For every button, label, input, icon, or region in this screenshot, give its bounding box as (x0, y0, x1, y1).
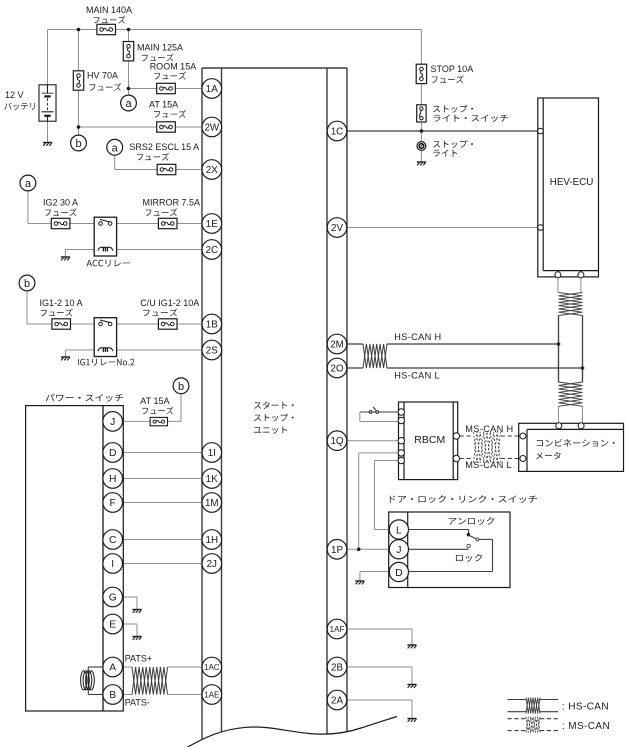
power switch pin G (103, 587, 123, 607)
fuse IG2 30A (51, 218, 70, 228)
label HV 70A (87, 71, 121, 91)
torn edge mask (186, 717, 398, 747)
wire 1P row to door lock J (347, 548, 390, 550)
twisted pair HS-CAN vertical lower (559, 382, 583, 406)
svg-text:12 V: 12 V (5, 90, 24, 100)
wire HS-CAN H (347, 343, 559, 345)
label MS-CAN L (465, 460, 512, 470)
label lock (456, 554, 482, 562)
connector pin 1H (202, 530, 222, 550)
connector pin 1M (202, 493, 222, 513)
power switch pin D (103, 443, 123, 463)
label HS-CAN L (394, 371, 440, 381)
svg-text:C/U IG1-2 10A: C/U IG1-2 10A (140, 298, 199, 308)
RBCM pin MS-CAN L (453, 455, 459, 461)
connector pin 1AE (202, 685, 222, 705)
connector pin 2S (202, 340, 222, 360)
svg-text:1C: 1C (331, 127, 344, 138)
twisted pair MS-CAN (474, 432, 501, 463)
wire G to ground (121, 597, 137, 610)
svg-text:PATS+: PATS+ (125, 654, 152, 664)
wire door lock D to ground (360, 572, 390, 582)
svg-text:J: J (110, 417, 115, 428)
node a SRS2 (107, 139, 123, 155)
power switch pin E (103, 614, 123, 634)
wire PATS braid to 1AC (168, 666, 203, 668)
power switch pin F (103, 493, 123, 513)
wire ACC relay coil row 2C with ground stub (65, 250, 202, 258)
RBCM left pin 1 (398, 409, 404, 415)
wire B to PATS braid (121, 694, 132, 696)
meter pin CAN H (556, 423, 562, 429)
label STOP 10A (431, 64, 474, 83)
label start stop unit (254, 401, 294, 433)
RBCM box (399, 402, 458, 480)
ground battery (43, 143, 52, 146)
door lock switch internals (408, 530, 492, 572)
svg-text:1AF: 1AF (330, 625, 345, 634)
legend MS-CAN text (562, 721, 610, 732)
svg-text:SRS2 ESCL 15 A: SRS2 ESCL 15 A (129, 142, 199, 152)
svg-text:J: J (396, 544, 401, 556)
label MAIN 125A (137, 43, 183, 62)
immobilizer antenna coil (81, 671, 95, 690)
svg-text:1K: 1K (206, 474, 218, 485)
svg-text:2W: 2W (204, 123, 219, 134)
legend HS-CAN sample (508, 698, 559, 714)
HEV-ECU box (538, 98, 599, 277)
connector pin 2A (327, 690, 347, 710)
twisted pair 2M 2O (363, 344, 387, 368)
svg-text:b: b (178, 381, 184, 393)
svg-text:MIRROR 7.5A: MIRROR 7.5A (143, 198, 201, 208)
label 12V battery (4, 90, 35, 110)
svg-text:E: E (109, 620, 116, 631)
wire CAN braid to meter pins stubs (559, 406, 583, 422)
svg-text:MS-CAN L: MS-CAN L (465, 460, 512, 470)
svg-text:1Q: 1Q (330, 436, 343, 447)
svg-text:b: b (75, 138, 81, 150)
wire C to 1H (121, 539, 203, 541)
wire STOP fuse drop (420, 30, 422, 132)
svg-text:b: b (24, 278, 30, 290)
RBCM pin MS-CAN H (453, 433, 459, 439)
svg-text:2V: 2V (331, 223, 343, 234)
svg-text:2M: 2M (330, 340, 344, 351)
battery 12V (39, 85, 56, 121)
label door lock link switch (390, 495, 537, 503)
wire stop light drop and ground (420, 131, 422, 162)
svg-text:2S: 2S (206, 346, 218, 357)
ground door lock D (355, 581, 364, 584)
svg-text:2X: 2X (206, 165, 218, 176)
svg-text:AT 15A: AT 15A (140, 396, 169, 406)
ground 2B (407, 685, 416, 688)
wire node b to IG1-2 fuse row 1B (27, 290, 203, 324)
label ACC relay (87, 260, 130, 267)
ground ACC relay (61, 257, 70, 260)
wire J row to AT15A fuse and node b riser (121, 393, 181, 422)
svg-text:MAIN 125A: MAIN 125A (137, 43, 183, 53)
label HEV-ECU (550, 177, 594, 188)
junction 2W row node b (77, 125, 81, 129)
meter pin CAN L (578, 423, 584, 429)
torn edge wavy line (186, 717, 397, 747)
svg-text:HV 70A: HV 70A (87, 71, 118, 81)
connector pin 2W (202, 117, 222, 137)
node b J row (173, 378, 189, 394)
label MS-CAN H (465, 424, 513, 434)
node a IG2 (20, 175, 36, 191)
wire 2W row (79, 126, 203, 128)
label AT 15A 2W row (149, 100, 186, 118)
svg-text:C: C (109, 535, 117, 546)
svg-text:1I: 1I (208, 448, 216, 459)
fuse MAIN 140A (97, 24, 116, 34)
svg-text:IG1-2 10 A: IG1-2 10 A (40, 298, 83, 308)
wire RBCM test switch loop (360, 412, 399, 422)
meter pin MS-CAN L (520, 456, 526, 462)
ground stop light (417, 162, 426, 165)
label stop light switch (433, 105, 508, 122)
connector pin 2O (327, 358, 347, 378)
wire H to 1K (121, 478, 203, 480)
svg-text:1B: 1B (206, 320, 218, 331)
junction HS-CAN L (581, 366, 585, 370)
svg-text:F: F (110, 498, 116, 509)
RBCM left pin 4 (398, 450, 404, 456)
svg-text:1M: 1M (205, 498, 219, 509)
junction bus MAIN125A (127, 28, 131, 32)
label HS-CAN H (394, 332, 441, 342)
svg-text:2A: 2A (331, 696, 343, 707)
door lock link switch box (389, 512, 510, 588)
svg-text:1P: 1P (331, 545, 343, 556)
svg-text:D: D (109, 448, 116, 459)
junction 1A row node a (127, 87, 131, 91)
twisted pair PATS (132, 667, 168, 695)
svg-text:STOP 10A: STOP 10A (431, 64, 474, 74)
connector pin 2B (327, 657, 347, 677)
power switch box (26, 406, 124, 711)
fuse STOP 10A (416, 64, 426, 83)
label power switch (46, 394, 123, 402)
connector pin 1Q (327, 431, 347, 451)
stop light switch (417, 105, 426, 122)
twisted pair HS-CAN vertical upper (559, 293, 583, 316)
svg-text:a: a (25, 178, 32, 190)
HEV-ECU pin 2V (538, 225, 544, 231)
wire MS-CAN H dashed (460, 435, 520, 437)
svg-text:MS-CAN H: MS-CAN H (465, 424, 513, 434)
power switch pin H (103, 469, 123, 489)
svg-text:MAIN 140A: MAIN 140A (86, 5, 132, 15)
label IG2 30A (43, 198, 78, 217)
svg-text:1H: 1H (206, 535, 219, 546)
wire 2A to ground (347, 700, 412, 719)
label IG1 relay No.2 (78, 359, 134, 366)
wire F to 1M (121, 502, 203, 504)
wire HV70A drop from bus to node b junction (78, 30, 80, 137)
svg-text:1E: 1E (206, 219, 218, 230)
ground 2A (407, 719, 416, 722)
svg-text:1AE: 1AE (204, 690, 219, 699)
stop light bulb (417, 142, 426, 151)
wire A to antenna coil (88, 667, 103, 695)
wire RBCM to door lock L (375, 461, 399, 530)
fuse IG1-2 10A (52, 319, 71, 329)
connector pin 1E (202, 214, 222, 234)
connector pin 1AF (327, 619, 347, 639)
relay IG1 No.2 (94, 318, 116, 357)
HEV-ECU pin CAN H (555, 272, 561, 278)
wire CAN channel verticals (559, 316, 583, 383)
connector pin 2X (202, 160, 222, 180)
power switch pin J (103, 412, 123, 432)
connector pin 1K (202, 469, 222, 489)
svg-text:AT 15A: AT 15A (149, 100, 178, 110)
svg-text:IG2 30 A: IG2 30 A (43, 198, 78, 208)
svg-text:2C: 2C (206, 245, 219, 256)
connector pin 2J (202, 554, 222, 574)
wire 2B to ground (347, 667, 412, 685)
label SRS2 ESCL 15A (129, 142, 199, 161)
HEV-ECU pin CAN L (578, 272, 584, 278)
svg-text:HS-CAN H: HS-CAN H (394, 332, 441, 342)
RBCM left pin 3 (398, 438, 404, 444)
wire 1C row to HEV-ECU (347, 130, 538, 132)
svg-text:G: G (109, 593, 117, 604)
wire MS-CAN L dashed (460, 458, 520, 460)
ground IG1 relay (61, 357, 70, 360)
RBCM left pin 5 (398, 457, 404, 463)
node b below 2W junction (71, 135, 87, 151)
door lock pin D (389, 562, 408, 581)
label ROOM 15A (150, 62, 197, 80)
svg-text:B: B (109, 690, 116, 701)
wire PATS braid to 1AE (168, 694, 203, 696)
connector pin 2C (202, 240, 222, 260)
label MIRROR 7.5A (143, 198, 201, 217)
fuse AT 15A 2W row (157, 122, 176, 132)
RBCM test switch (369, 407, 378, 414)
connector pin 1P (327, 540, 347, 560)
connector pin 1C (327, 121, 347, 141)
wire E to ground (121, 624, 137, 637)
connector pin 2V (327, 218, 347, 238)
fuse ROOM 15A (157, 83, 176, 93)
label unlock (449, 517, 494, 525)
power switch pin A (103, 657, 123, 677)
svg-text:: MS-CAN: : MS-CAN (562, 721, 610, 732)
ground G row (132, 610, 141, 613)
fuse HV 70A (73, 71, 83, 90)
fuse SRS2 ESCL 15A (157, 164, 176, 174)
connector pin 1I (202, 443, 222, 463)
svg-text:RBCM: RBCM (414, 434, 445, 446)
wire 1AF to ground (347, 629, 412, 645)
junction stop light (420, 129, 424, 133)
wire battery riser and top bus (48, 30, 422, 86)
svg-text:PATS-: PATS- (125, 698, 150, 708)
label AT 15A J row (140, 396, 173, 415)
svg-text:D: D (395, 567, 403, 579)
label C/U IG1-2 10A (140, 298, 199, 316)
label MAIN 140A (86, 5, 132, 24)
svg-text:ROOM 15A: ROOM 15A (150, 62, 197, 72)
fuse MIRROR 7.5A (158, 218, 177, 228)
ground E row (132, 637, 141, 640)
power switch pin I (103, 554, 123, 574)
svg-text:a: a (112, 142, 119, 154)
junction bus HV70A (77, 28, 81, 32)
svg-text:HS-CAN L: HS-CAN L (394, 371, 440, 381)
svg-text:L: L (396, 524, 402, 536)
node a below 1A junction (121, 95, 137, 111)
wire 1P junction riser to RBCM (359, 453, 399, 549)
wire IG1 relay coil row 2S with ground stub (65, 350, 202, 357)
node b IG1-2 (19, 275, 35, 291)
label PATS+ (125, 654, 152, 664)
label PATS- (125, 698, 150, 708)
wire HEV-ECU pins to CAN braid stubs (558, 278, 581, 293)
wire 2V to HEV-ECU (347, 227, 538, 229)
wire 1A row (129, 88, 203, 90)
connector pin 2M (327, 334, 347, 354)
wire node a to IG2 fuse row 1E (28, 190, 203, 223)
meter pin MS-CAN H (520, 433, 526, 439)
door lock pin J (389, 540, 408, 559)
HEV-ECU pin 1C (538, 128, 544, 134)
start-stop unit box (202, 68, 347, 747)
svg-text:I: I (111, 559, 114, 570)
svg-text:HEV-ECU: HEV-ECU (550, 177, 594, 188)
wire MAIN125A drop from bus to node a (128, 30, 130, 97)
label combination meter (536, 439, 615, 459)
label RBCM (414, 434, 445, 446)
fuse C/U IG1-2 10A (158, 319, 177, 329)
connector pin 1A (202, 79, 222, 99)
connector pin 1AC (202, 657, 222, 677)
RBCM left pin 2 (398, 417, 404, 423)
wire battery to ground (47, 121, 49, 143)
svg-text:: HS-CAN: : HS-CAN (562, 701, 609, 712)
label IG1-2 10A (40, 298, 83, 316)
legend MS-CAN sample (508, 717, 559, 733)
svg-text:2J: 2J (207, 559, 217, 570)
legend HS-CAN text (562, 701, 609, 712)
door lock pin L (389, 520, 408, 539)
relay ACC (94, 217, 116, 256)
combination meter box (519, 423, 624, 471)
wire 1Q to RBCM (347, 440, 399, 442)
fuse AT 15A J row (150, 417, 167, 425)
wire A to PATS braid (121, 666, 132, 668)
ground 1AF (407, 645, 416, 648)
power switch pin B (103, 685, 123, 705)
svg-text:2O: 2O (330, 364, 343, 375)
svg-text:a: a (125, 98, 132, 110)
fuse MAIN 125A (123, 42, 133, 61)
wire HS-CAN L (347, 367, 583, 369)
connector pin 1B (202, 314, 222, 334)
wire SRS2 node a to 2X row (115, 155, 203, 170)
svg-text:A: A (109, 663, 116, 674)
label stop light (433, 140, 473, 157)
svg-text:2B: 2B (331, 663, 343, 674)
wire I to 2J (121, 563, 203, 565)
wire D to 1I (121, 452, 203, 454)
junction 1P riser (357, 548, 361, 552)
svg-text:1A: 1A (206, 84, 218, 95)
power switch pin C (103, 530, 123, 550)
svg-text:H: H (109, 474, 116, 485)
junction HS-CAN H (557, 342, 561, 346)
svg-text:1AC: 1AC (204, 663, 220, 672)
